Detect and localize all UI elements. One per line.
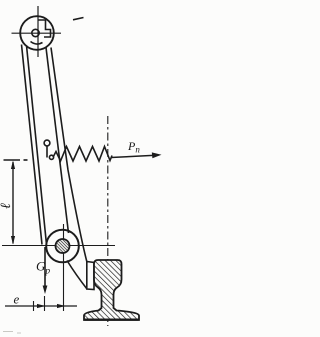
dimension l line [11, 161, 15, 245]
bottom pivot vertical centerline [63, 224, 65, 311]
link bar 1 right edge [27, 46, 47, 245]
force Pn arrow [111, 152, 162, 158]
scan speckle bottom left [3, 332, 21, 334]
top pivot pin circle [32, 29, 39, 36]
Gp extension line [44, 296, 46, 311]
spring anchor ring [44, 140, 50, 146]
top pivot outer circle [20, 16, 54, 50]
spring zigzag [53, 147, 112, 162]
top pivot horizontal centerline [12, 32, 62, 34]
top pivot lower arc detail [31, 42, 43, 45]
svg-text:ℓ: ℓ [0, 203, 14, 209]
bottom pivot horizontal centerline [2, 245, 115, 247]
top pivot vertical centerline [37, 6, 39, 57]
top right dash mark [73, 18, 84, 20]
rail base bottom edge [85, 319, 139, 321]
spring axis reference dash left [4, 159, 21, 161]
svg-text:e: e [14, 292, 20, 307]
right dash-dot centerline [107, 116, 109, 326]
weight Gp vector [43, 247, 48, 294]
link bar 1 left edge [22, 45, 43, 245]
spring anchor stem [46, 146, 48, 158]
bottom pivot hatched hub [56, 239, 70, 253]
top pivot step detail [39, 20, 51, 37]
lever arm bottom edge [67, 261, 87, 290]
dimension e left tick [33, 301, 35, 311]
rail cross-section [84, 260, 139, 320]
spring axis reference dot [24, 159, 28, 161]
spring pin [49, 155, 53, 159]
link bar 2 left edge [46, 48, 69, 234]
link bar 2 right edge / lever outline [51, 48, 87, 262]
dimension e line [5, 304, 77, 308]
brake shoe [87, 262, 94, 290]
bottom pivot outer circle [46, 230, 79, 263]
